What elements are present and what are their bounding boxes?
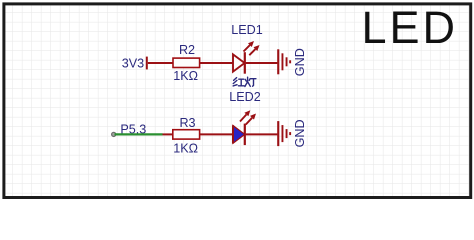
- resistor R2: [173, 58, 200, 67]
- svg-text:LED: LED: [362, 2, 459, 53]
- comment 红灯: [233, 77, 256, 86]
- svg-text:R3: R3: [179, 116, 195, 130]
- svg-text:GND: GND: [293, 119, 307, 147]
- LED LED2: [233, 110, 256, 145]
- LED LED1: [233, 41, 260, 74]
- ground: [277, 49, 291, 74]
- node P5.3: [112, 132, 116, 136]
- wire: [200, 133, 233, 135]
- ground: [277, 121, 291, 146]
- svg-text:R2: R2: [179, 43, 195, 57]
- wire: [246, 62, 278, 64]
- svg-text:LED2: LED2: [229, 90, 261, 104]
- svg-text:1KΩ: 1KΩ: [173, 69, 198, 83]
- wire: [163, 133, 174, 135]
- svg-text:3V3: 3V3: [122, 56, 144, 70]
- power port 3V3: [146, 57, 148, 70]
- resistor R3: [173, 130, 200, 139]
- wire: [200, 62, 233, 64]
- wire (green): [115, 133, 163, 135]
- svg-text:1KΩ: 1KΩ: [173, 141, 198, 155]
- wire: [148, 62, 174, 64]
- svg-text:GND: GND: [293, 48, 307, 76]
- wire: [246, 133, 278, 135]
- svg-text:LED1: LED1: [231, 23, 263, 37]
